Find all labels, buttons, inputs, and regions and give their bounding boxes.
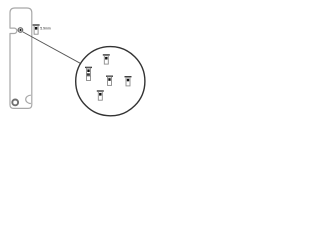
screw S0 with label (33, 24, 40, 34)
screw S2 (left, with standoff below) (85, 67, 92, 81)
right-edge semicircular notch (26, 95, 31, 103)
pointer line (23, 32, 81, 64)
screw S5 (bottom) (97, 90, 104, 100)
magnifier circle (76, 47, 145, 116)
screw S3 (middle) (106, 76, 113, 86)
screw S1 (top) (103, 54, 110, 64)
screw S4 (right) (125, 76, 132, 86)
svg-text:5.9mm: 5.9mm (40, 27, 51, 31)
grommet (bottom-left) (12, 100, 18, 106)
hole with screw dot (top) (18, 28, 23, 33)
plate outline with left slot notch (10, 8, 32, 108)
